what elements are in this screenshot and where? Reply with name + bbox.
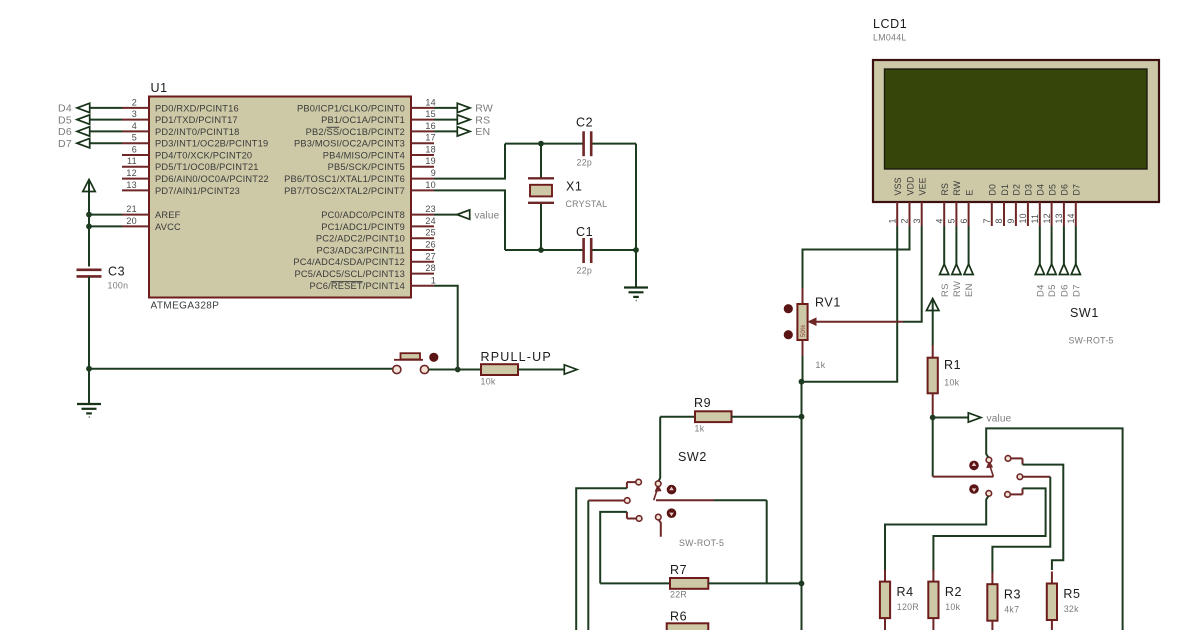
potentiometer RV1 1k <box>784 288 903 370</box>
junction R1 bottom / value <box>930 415 936 421</box>
svg-text:24: 24 <box>425 216 436 226</box>
LCD1 pin 1 VSS stub + labels <box>887 177 903 226</box>
svg-text:2: 2 <box>900 218 910 223</box>
svg-text:U1: U1 <box>151 81 168 95</box>
svg-text:PD6/AIN0/OC0A/PCINT22: PD6/AIN0/OC0A/PCINT22 <box>155 174 269 184</box>
svg-text:4: 4 <box>132 121 137 131</box>
svg-text:14: 14 <box>425 97 436 107</box>
terminal value output right of R1 <box>933 413 1012 425</box>
wire SW1 contact1 up and right to far rail <box>986 428 1122 630</box>
svg-text:6: 6 <box>959 218 969 223</box>
svg-text:VEE: VEE <box>918 177 928 195</box>
LCD1 pin 11 D4 stub + labels <box>1030 184 1046 226</box>
wire RV1 bottom to rail <box>802 356 804 382</box>
U1 pin 2 (PD0) stub + number + label <box>122 97 239 113</box>
svg-text:6: 6 <box>132 145 137 155</box>
terminal D4 under LCD <box>1035 226 1046 297</box>
svg-text:EN: EN <box>964 283 975 297</box>
SW2 contact 1 <box>655 481 661 487</box>
LCD1 pin 13 D6 stub + labels <box>1054 184 1070 226</box>
svg-text:2: 2 <box>132 97 137 107</box>
svg-text:PC0/ADC0/PCINT8: PC0/ADC0/PCINT8 <box>321 210 405 220</box>
U1 pin 16 stub + number + label <box>306 121 436 137</box>
svg-text:SW-ROT-5: SW-ROT-5 <box>679 538 724 548</box>
resistor R2 10k <box>928 570 962 630</box>
svg-text:VDD: VDD <box>905 176 915 195</box>
wire R9 down to SW2 contact1 <box>658 417 660 482</box>
svg-text:32k: 32k <box>1064 604 1079 614</box>
svg-text:D4: D4 <box>1035 284 1046 297</box>
svg-text:D5: D5 <box>58 114 72 126</box>
U1 pin 10 stub + number + label <box>284 180 436 196</box>
SW2 contact 2 <box>636 479 642 485</box>
svg-text:CRYSTAL: CRYSTAL <box>566 199 608 209</box>
svg-text:100n: 100n <box>108 281 129 291</box>
SW2 contact 4 <box>636 516 642 522</box>
svg-text:10: 10 <box>1018 213 1028 223</box>
svg-text:11: 11 <box>127 156 137 166</box>
capacitor C2 22p <box>576 116 593 168</box>
svg-text:ATMEGA328P: ATMEGA328P <box>151 301 220 312</box>
LCD1 LM044L body <box>873 17 1159 202</box>
LCD1 pin 10 D3 stub + labels <box>1018 184 1034 226</box>
svg-text:D7: D7 <box>1072 184 1082 196</box>
svg-text:R4: R4 <box>897 585 914 599</box>
SW2 decrement dot <box>667 508 677 518</box>
svg-text:PC1/ADC1/PCINT9: PC1/ADC1/PCINT9 <box>321 222 405 232</box>
svg-text:PB2/SS/OC1B/PCINT2: PB2/SS/OC1B/PCINT2 <box>306 127 405 137</box>
terminal value at PC0 <box>434 210 500 221</box>
wire VSS down to RV1 bottom rail <box>802 226 898 382</box>
main vertical rail <box>801 382 803 630</box>
wire SW2 contact3 left and down <box>588 501 624 630</box>
LCD1 pin 14 D7 stub + labels <box>1066 184 1082 226</box>
LCD1 pin 4 RS stub + labels <box>934 183 950 226</box>
terminal RW under LCD <box>952 226 963 297</box>
svg-text:R3: R3 <box>1004 588 1021 602</box>
SW1 contact 4 <box>1005 492 1011 498</box>
svg-text:RS: RS <box>940 183 950 196</box>
svg-text:13: 13 <box>1054 213 1064 223</box>
U1 pin 27 stub + number + label <box>293 251 436 267</box>
svg-text:PC4/ADC4/SDA/PCINT12: PC4/ADC4/SDA/PCINT12 <box>293 257 405 267</box>
svg-text:20: 20 <box>126 216 137 226</box>
LCD1 pin 8 D1 stub + labels <box>994 184 1010 226</box>
terminal RS under LCD <box>940 226 951 297</box>
svg-text:value: value <box>987 413 1012 424</box>
junction reset/button/resistor <box>455 367 461 373</box>
power terminal (up arrow) top of left rail <box>83 180 95 267</box>
svg-text:SW1: SW1 <box>1070 306 1099 320</box>
svg-text:1k: 1k <box>695 424 705 434</box>
svg-text:8: 8 <box>994 218 1004 223</box>
svg-text:22p: 22p <box>577 158 593 168</box>
svg-text:D7: D7 <box>58 138 72 150</box>
wire SW2 contact2 left and down <box>576 482 636 630</box>
crystal X1 <box>528 144 607 250</box>
svg-text:D2: D2 <box>1012 184 1022 196</box>
svg-text:PB6/TOSC1/XTAL1/PCINT6: PB6/TOSC1/XTAL1/PCINT6 <box>284 174 405 184</box>
svg-text:RV1: RV1 <box>815 296 841 310</box>
U1 pin 4 (PD2) stub + number + label <box>122 121 240 137</box>
terminal D7 (left input arrow) <box>58 138 122 150</box>
svg-text:22p: 22p <box>577 266 593 276</box>
capacitor C3 100n <box>77 265 129 369</box>
svg-text:4: 4 <box>934 218 944 223</box>
terminal EN (right output arrow) <box>434 126 490 138</box>
U1 pin 15 stub + number + label <box>321 109 436 125</box>
LCD1 pin 5 RW stub + labels <box>947 180 963 226</box>
junction RV1 bottom <box>799 379 805 385</box>
svg-text:C2: C2 <box>576 116 593 130</box>
svg-text:RPULL-UP: RPULL-UP <box>481 350 552 364</box>
U1 pin 13 (PD7) stub + number + label <box>122 180 240 196</box>
U1 pin 19 stub + number + label <box>328 156 436 172</box>
wire SW1 contact5 to R4 <box>885 496 988 570</box>
svg-text:D6: D6 <box>1060 284 1071 297</box>
svg-text:R5: R5 <box>1063 587 1080 601</box>
terminal D7 under LCD <box>1071 226 1082 297</box>
junction R9 rail <box>799 414 805 420</box>
U1 pin 17 stub + number + label <box>294 133 436 149</box>
wire SW2 common down to R7 rail <box>766 500 768 583</box>
U1 pin 5 (PD3) stub + number + label <box>122 133 268 149</box>
rotary switch SW2 common pole <box>654 485 767 500</box>
svg-text:PD2/INT0/PCINT18: PD2/INT0/PCINT18 <box>155 127 240 137</box>
svg-text:RW: RW <box>952 281 963 297</box>
svg-text:RS: RS <box>940 283 951 297</box>
U1 pin 20 (AVCC) stub + number + label <box>122 216 181 232</box>
push button (reset) <box>393 353 439 374</box>
svg-text:SW-ROT-5: SW-ROT-5 <box>1069 336 1114 346</box>
svg-text:LCD1: LCD1 <box>873 17 907 31</box>
svg-text:1: 1 <box>887 218 897 223</box>
terminal D6 (left input arrow) <box>58 126 122 138</box>
svg-text:3: 3 <box>132 109 137 119</box>
junction C1 right <box>633 247 639 253</box>
terminal arrow right of RPULL-UP <box>564 365 577 374</box>
resistor RPULL-UP 10k <box>481 350 552 387</box>
LCD1 pin 6 E stub + labels <box>959 189 975 226</box>
wire VDD down-left to RV1 top <box>803 226 910 288</box>
svg-text:PB3/MOSI/OC2A/PCINT3: PB3/MOSI/OC2A/PCINT3 <box>294 139 405 149</box>
svg-text:D5: D5 <box>1047 184 1057 196</box>
wire SW1 contact2 to R5 <box>1011 458 1064 570</box>
U1 pin 25 stub + number + label <box>316 228 436 244</box>
LCD1 pin 9 D2 stub + labels <box>1006 184 1022 226</box>
wire right side of crystal caps <box>635 144 637 287</box>
svg-text:C1: C1 <box>576 225 593 239</box>
resistor R4 120R <box>880 570 919 630</box>
svg-text:18: 18 <box>425 145 436 155</box>
svg-text:R1: R1 <box>944 358 961 372</box>
svg-text:15: 15 <box>425 109 436 119</box>
svg-text:VSS: VSS <box>893 177 903 195</box>
svg-text:SW2: SW2 <box>678 450 707 464</box>
microcontroller U1 ATMEGA328P body <box>149 81 411 312</box>
svg-text:AREF: AREF <box>155 210 181 220</box>
U1 pin 24 stub + number + label <box>321 216 436 232</box>
svg-text:R7: R7 <box>670 563 687 577</box>
svg-text:PC3/ADC3/PCINT11: PC3/ADC3/PCINT11 <box>317 245 405 255</box>
svg-text:28: 28 <box>425 263 436 273</box>
svg-text:10k: 10k <box>944 378 959 388</box>
svg-text:17: 17 <box>425 133 436 143</box>
resistor R9 1k <box>660 396 801 434</box>
svg-text:D1: D1 <box>1000 184 1010 196</box>
svg-text:value: value <box>475 210 500 221</box>
svg-text:1: 1 <box>431 275 436 285</box>
svg-text:3: 3 <box>912 218 922 223</box>
svg-text:R6: R6 <box>670 610 687 624</box>
junction AVCC <box>86 224 92 230</box>
svg-text:23: 23 <box>425 204 436 214</box>
svg-text:21: 21 <box>126 204 137 214</box>
svg-text:PD5/T1/OC0B/PCINT21: PD5/T1/OC0B/PCINT21 <box>155 162 259 172</box>
svg-text:120R: 120R <box>897 602 919 612</box>
wire AREF to left rail <box>89 214 122 216</box>
power terminal above R1 <box>927 299 939 346</box>
rotary switch SW1 common pole <box>933 461 994 476</box>
terminal EN under LCD <box>964 226 975 297</box>
svg-text:AVCC: AVCC <box>155 222 181 232</box>
resistor R5 32k <box>1047 572 1081 630</box>
svg-text:PD4/T0/XCK/PCINT20: PD4/T0/XCK/PCINT20 <box>155 150 252 160</box>
SW2 contact5 stub down <box>659 520 661 537</box>
U1 pin 14 stub + number + label <box>297 97 436 113</box>
svg-text:1k: 1k <box>816 360 826 370</box>
ground symbol crystal <box>624 288 648 301</box>
svg-text:PB1/OC1A/PCINT1: PB1/OC1A/PCINT1 <box>321 115 405 125</box>
svg-text:RW: RW <box>475 103 493 115</box>
svg-text:PB4/MISO/PCINT4: PB4/MISO/PCINT4 <box>323 150 405 160</box>
svg-text:D4: D4 <box>58 103 72 115</box>
svg-text:14: 14 <box>1066 213 1076 223</box>
svg-text:27: 27 <box>425 251 436 261</box>
svg-text:PC5/ADC5/SCL/PCINT13: PC5/ADC5/SCL/PCINT13 <box>294 269 405 279</box>
wire XTAL1 pin9 to top rail <box>434 144 505 179</box>
svg-text:PD7/AIN1/PCINT23: PD7/AIN1/PCINT23 <box>155 186 240 196</box>
terminal D5 (left input arrow) <box>58 114 122 126</box>
svg-text:D3: D3 <box>1024 184 1034 196</box>
resistor R6 (clipped at bottom) <box>667 610 709 630</box>
svg-text:D6: D6 <box>58 126 72 138</box>
svg-text:26: 26 <box>425 240 436 250</box>
svg-text:EN: EN <box>475 126 490 138</box>
svg-text:D4: D4 <box>1036 184 1046 196</box>
label SW1 <box>1069 306 1114 346</box>
wire PC6 reset down to button junction <box>434 286 458 370</box>
wire XTAL2 pin10 to bottom rail <box>434 190 505 250</box>
U1 pin 9 stub + number + label <box>284 168 436 184</box>
svg-text:E: E <box>964 189 974 195</box>
svg-text:LM044L: LM044L <box>873 33 907 43</box>
wire VEE down to RV1 wiper <box>903 226 922 322</box>
SW2 contact 3 <box>624 498 630 504</box>
svg-text:50%: 50% <box>800 324 807 337</box>
U1 pin 21 (AREF) stub + number + label <box>122 204 181 220</box>
resistor R1 10k <box>928 345 962 418</box>
SW2 increment dot <box>667 485 677 495</box>
wire left rail to ground <box>88 369 90 404</box>
SW1 decrement dot <box>969 484 979 494</box>
svg-text:12: 12 <box>1042 213 1052 223</box>
terminal RW (right output arrow) <box>434 103 493 115</box>
svg-text:PD0/RXD/PCINT16: PD0/RXD/PCINT16 <box>155 103 239 113</box>
wire RPULL-UP to terminal <box>518 369 564 371</box>
svg-text:D6: D6 <box>1060 184 1070 196</box>
U1 pin 18 stub + number + label <box>323 145 436 161</box>
svg-text:PB0/ICP1/CLKO/PCINT0: PB0/ICP1/CLKO/PCINT0 <box>297 103 405 113</box>
svg-text:D0: D0 <box>988 184 998 196</box>
SW1 contact 3 <box>1017 474 1023 480</box>
svg-text:C3: C3 <box>108 265 125 279</box>
LCD1 pin 3 VEE stub + labels <box>912 177 928 226</box>
svg-text:R2: R2 <box>945 585 962 599</box>
junction AREF <box>86 212 92 218</box>
SW1 contact 1 <box>986 457 992 463</box>
svg-text:10k: 10k <box>481 377 496 387</box>
svg-text:RW: RW <box>952 180 962 195</box>
terminal D5 under LCD <box>1047 226 1058 297</box>
terminal D6 under LCD <box>1059 226 1070 297</box>
svg-text:D7: D7 <box>1071 284 1082 297</box>
wire SW2 contact4 to R7 <box>600 512 636 584</box>
junction crystal bottom <box>538 247 544 253</box>
svg-text:12: 12 <box>126 168 137 178</box>
svg-text:4k7: 4k7 <box>1004 605 1019 615</box>
svg-text:25: 25 <box>425 228 436 238</box>
U1 pin 28 stub + number + label <box>294 263 436 279</box>
svg-text:10: 10 <box>425 180 436 190</box>
svg-text:5: 5 <box>132 133 137 143</box>
U1 pin 23 stub + number + label <box>321 204 436 220</box>
U1 pin 1 stub + number + label <box>309 275 436 291</box>
junction R7 rail <box>799 581 805 587</box>
svg-text:PC6/RESET/PCINT14: PC6/RESET/PCINT14 <box>309 281 405 291</box>
U1 pin 3 (PD1) stub + number + label <box>122 109 238 125</box>
wire R1 junction down to SW1 pole <box>932 418 934 477</box>
svg-text:13: 13 <box>126 180 137 190</box>
SW1 increment dot <box>969 461 979 471</box>
U1 pin 11 (PD5) stub + number + label <box>122 156 259 172</box>
svg-text:11: 11 <box>1030 214 1040 224</box>
capacitor C1 22p <box>576 225 593 276</box>
svg-text:D5: D5 <box>1047 284 1058 297</box>
U1 pin 26 stub + number + label <box>317 240 436 256</box>
ground symbol left <box>77 404 101 417</box>
junction crystal top <box>538 141 544 147</box>
svg-text:PB5/SCK/PCINT5: PB5/SCK/PCINT5 <box>328 162 405 172</box>
terminal D4 (left input arrow) <box>58 103 122 115</box>
svg-text:16: 16 <box>425 121 436 131</box>
wire crystal top rail <box>505 143 636 145</box>
svg-text:PD1/TXD/PCINT17: PD1/TXD/PCINT17 <box>155 115 238 125</box>
U1 pin 6 (PD4) stub + number + label <box>122 145 252 161</box>
svg-text:PC2/ADC2/PCINT10: PC2/ADC2/PCINT10 <box>316 234 405 244</box>
SW1 contact 2 <box>1005 456 1011 462</box>
svg-text:10k: 10k <box>945 602 960 612</box>
wire reset row horizontal <box>89 368 393 370</box>
wire SW1 contact4 to R2 <box>933 488 1045 570</box>
U1 pin 12 (PD6) stub + number + label <box>122 168 269 184</box>
svg-text:5: 5 <box>947 218 957 223</box>
LCD1 pin 2 VDD stub + labels <box>900 176 916 226</box>
svg-text:19: 19 <box>425 156 436 166</box>
wire AVCC to left rail <box>89 225 122 227</box>
wire SW1 contact3 to R3 <box>992 477 1050 573</box>
junction left rail / reset row <box>86 366 92 372</box>
svg-text:RS: RS <box>475 114 490 126</box>
svg-text:PD3/INT1/OC2B/PCINT19: PD3/INT1/OC2B/PCINT19 <box>155 139 268 149</box>
svg-text:9: 9 <box>1006 218 1016 223</box>
label SW2 <box>678 450 724 548</box>
resistor R3 4k7 <box>987 572 1021 630</box>
wire crystal bottom rail <box>505 249 636 251</box>
SW1 contact 5 <box>986 491 992 497</box>
svg-text:PB7/TOSC2/XTAL2/PCINT7: PB7/TOSC2/XTAL2/PCINT7 <box>284 186 405 196</box>
LCD1 pin 7 D0 stub + labels <box>982 184 998 226</box>
svg-text:X1: X1 <box>566 180 583 194</box>
LCD1 pin 12 D5 stub + labels <box>1042 184 1058 226</box>
terminal RS (right output arrow) <box>434 114 490 126</box>
SW2 contact 5 <box>656 514 662 520</box>
resistor R7 22R <box>600 563 801 600</box>
wire button to junction <box>429 369 481 371</box>
svg-text:22R: 22R <box>670 590 687 600</box>
svg-text:9: 9 <box>431 168 436 178</box>
svg-text:7: 7 <box>982 218 992 223</box>
svg-text:R9: R9 <box>694 396 711 410</box>
